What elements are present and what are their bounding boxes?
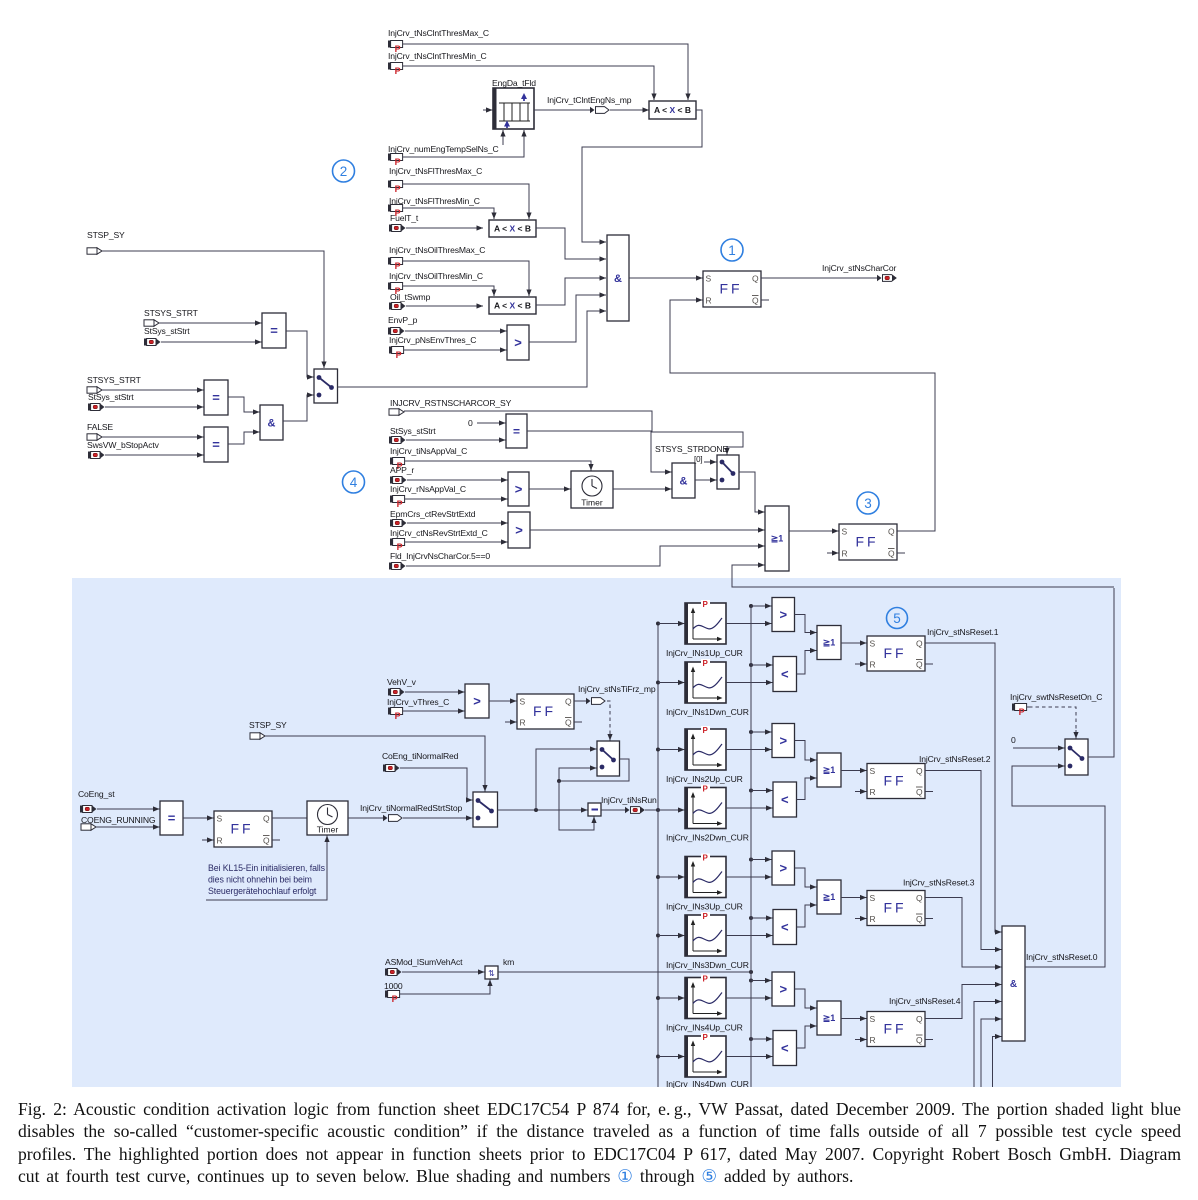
km converter glyph	[488, 969, 495, 978]
curve block InjCrv_INs1Up_CUR	[685, 600, 726, 644]
wire STSP_SY to switch U10 control	[102, 251, 327, 368]
svg-text:≧1: ≧1	[823, 892, 836, 902]
wire bus to InjCrv_INs2Up_CUR	[658, 747, 685, 752]
comparator U18 greater-than	[508, 512, 530, 548]
svg-text:&: &	[614, 273, 622, 285]
wire EngDa_tFld output to comparator U2	[534, 109, 590, 111]
flip-flop FF3	[839, 524, 897, 560]
svg-text:InjCrv_INs3Dwn_CUR: InjCrv_INs3Dwn_CUR	[666, 960, 749, 970]
svg-text:InjCrv_stNsTiFrz_mp: InjCrv_stNsTiFrz_mp	[578, 684, 656, 694]
blue shaded region (customer-specific acoustic condition disable logic)	[72, 578, 1121, 1087]
svg-text:EngDa_tFld: EngDa_tFld	[492, 78, 536, 88]
flip-flop FF8 stNsReset.4	[867, 1012, 925, 1047]
wire loop to subtract U25 bottom	[559, 781, 597, 830]
svg-text:P: P	[395, 711, 401, 721]
svg-text:S: S	[870, 893, 876, 903]
wire VehV_v to comparator U20	[405, 689, 465, 694]
svg-text:=: =	[270, 323, 278, 338]
label Fld_InjCrvNsCharCor.5==0	[390, 551, 490, 561]
svg-text:InjCrv_INs4Dwn_CUR: InjCrv_INs4Dwn_CUR	[666, 1079, 749, 1088]
svg-text:P: P	[395, 261, 401, 271]
wire InjCrv_INs2Dwn_CUR output to comparator	[726, 805, 773, 810]
OR gate row 4	[817, 1001, 841, 1035]
comparator gt2 greater-than	[772, 724, 795, 758]
label [0]	[694, 455, 702, 464]
wire InjCrv_INs3Up_CUR output to comparator	[726, 874, 772, 879]
svg-text:InjCrv_stNsReset.1: InjCrv_stNsReset.1	[927, 627, 999, 637]
svg-text:1000: 1000	[384, 981, 403, 991]
wire pNsEnvThres to comparator U6	[406, 347, 507, 352]
svg-text:P: P	[395, 184, 401, 194]
wire ctNsRevStrtExtd to comparator U18	[407, 539, 508, 544]
equality U8	[204, 380, 228, 415]
param InjCrv_tNsClntThresMax_C	[388, 41, 405, 54]
wire FF1 Qbar stub	[761, 299, 769, 301]
OR gate row 1	[817, 626, 841, 660]
wire AND U5 output to FF1 S	[629, 275, 703, 280]
circled number 5	[887, 608, 908, 629]
label COENG_RUNNING	[81, 815, 156, 825]
svg-text:FF: FF	[855, 534, 878, 550]
port STSYS_STRT second	[87, 387, 102, 393]
wire FF4 Q to mp port	[574, 700, 583, 702]
wire gt3 to OR	[795, 868, 817, 890]
svg-text:Q: Q	[916, 660, 923, 670]
wire STSYS_STRT to equality U7	[159, 320, 262, 325]
junction km bus upper row 1	[749, 604, 753, 608]
wire AND U30 input 3 horizontal	[962, 964, 1002, 969]
label STSYS_STRDONE	[655, 444, 728, 454]
label InjCrv_tNsOilThresMax_C	[389, 245, 485, 255]
param InjCrv_tNsClntThresMin_C	[388, 63, 405, 76]
wire FF6 Q to AND U30	[925, 771, 1002, 953]
svg-text:≧1: ≧1	[823, 1013, 836, 1023]
label InjCrv_tClntEngNs_mp	[547, 95, 632, 105]
svg-text:0: 0	[1011, 735, 1016, 745]
circled number 2	[333, 160, 355, 182]
wire COENG_RUNNING to equality U23	[96, 824, 160, 829]
label FuelT_t	[390, 213, 419, 223]
svg-text:Q: Q	[263, 814, 270, 824]
svg-text:P: P	[703, 975, 709, 984]
svg-text:A < X < B: A < X < B	[494, 224, 531, 234]
wire STSP_SY to switch U22 control	[265, 736, 488, 792]
wire U6 output to AND U5 input 4	[529, 292, 606, 342]
wire tiNsRun to curve bus	[645, 809, 658, 811]
param InjCrv_tNsFlThresMin_C	[388, 205, 405, 218]
label INJCRV_RSTNSCHARCOR_SY	[390, 398, 512, 408]
equality U12	[506, 414, 527, 448]
label InjCrv_tiNormalRedStrtStop	[360, 803, 462, 813]
timer U15	[571, 471, 613, 508]
svg-text:FF: FF	[883, 1021, 906, 1037]
svg-text:5: 5	[893, 611, 901, 626]
circled number 4	[343, 471, 365, 493]
vis port InjCrv_tiNormalRedStrtStop	[380, 815, 402, 822]
svg-text:Q: Q	[752, 296, 759, 306]
svg-text:VehV_v: VehV_v	[387, 677, 417, 687]
svg-text:⇅: ⇅	[488, 969, 495, 978]
wire U18 output to OR U17 input 2	[530, 527, 765, 532]
svg-text:InjCrv_tClntEngNs_mp: InjCrv_tClntEngNs_mp	[547, 95, 632, 105]
wire U23 output to FF2 S	[183, 815, 214, 820]
wire InjCrv_INs1Dwn_CUR output to comparator	[726, 680, 773, 685]
wire FF8 Qbar stub	[925, 1039, 933, 1041]
label InjCrv_tNsClntThresMax_C	[388, 28, 489, 38]
label km	[503, 957, 514, 967]
label StSys_stStrt second	[88, 392, 134, 402]
svg-text:P: P	[397, 499, 403, 509]
label constant 0 second	[1011, 735, 1016, 745]
svg-text:InjCrv_INs2Dwn_CUR: InjCrv_INs2Dwn_CUR	[666, 833, 749, 843]
svg-text:>: >	[515, 482, 523, 497]
flip-flop FF6 stNsReset.2	[867, 764, 925, 799]
svg-text:InjCrv_INs4Up_CUR: InjCrv_INs4Up_CUR	[666, 1023, 743, 1033]
switch U31 reset-on	[1065, 739, 1088, 775]
wire tNsFlThresMin to A<X<B U3 input A	[405, 208, 497, 219]
junction km bus	[749, 970, 753, 974]
wire FF8 R stub	[855, 1037, 867, 1042]
svg-text:InjCrv_stNsReset.0: InjCrv_stNsReset.0	[1026, 952, 1098, 962]
label InjCrv_INs3Up_CUR	[666, 902, 743, 912]
label StSys_stStrt first	[144, 326, 190, 336]
wire OR to FF7 S	[841, 895, 867, 900]
wire km bus to comparator lt1	[751, 662, 773, 667]
wire tiNormalRedStrtStop to switch U22 input 2	[403, 815, 473, 820]
wire FF7 Qbar stub	[925, 918, 933, 920]
svg-text:Q: Q	[888, 549, 895, 559]
svg-text:P: P	[703, 726, 709, 735]
label InjCrv_stNsReset.3	[903, 878, 975, 888]
label InjCrv_stNsReset.4	[889, 996, 961, 1006]
svg-text:InjCrv_tiNsAppVal_C: InjCrv_tiNsAppVal_C	[390, 446, 467, 456]
svg-text:SwsVW_bStopActv: SwsVW_bStopActv	[87, 440, 160, 450]
svg-text:P: P	[395, 66, 401, 76]
svg-text:Q: Q	[916, 1014, 923, 1024]
wire bus to InjCrv_INs3Up_CUR	[658, 874, 685, 879]
comparator gt4 greater-than	[772, 972, 795, 1006]
wire AND U13 output to switch U14 input 2	[695, 477, 717, 482]
comparator lt3 less-than	[773, 910, 797, 945]
wire 1000 to km converter bottom	[402, 980, 493, 995]
wire tNsClntThresMax to A<X<B U2 input B	[405, 44, 691, 100]
svg-text:InjCrv_swtNsResetOn_C: InjCrv_swtNsResetOn_C	[1010, 692, 1102, 702]
circled number 1	[721, 239, 743, 261]
svg-text:S: S	[870, 1014, 876, 1024]
label InjCrv_rNsAppVal_C	[390, 484, 466, 494]
param InjCrv_numEngTempSelNs_C	[388, 154, 405, 167]
svg-text:S: S	[520, 697, 526, 707]
svg-text:InjCrv_stNsCharCor: InjCrv_stNsCharCor	[822, 263, 896, 273]
wire AND U30 input 7 from below	[993, 1034, 1002, 1087]
OR gate row 2	[817, 753, 841, 787]
svg-text:P: P	[1019, 707, 1025, 717]
svg-text:InjCrv_INs1Up_CUR: InjCrv_INs1Up_CUR	[666, 648, 743, 658]
svg-text:S: S	[706, 274, 712, 284]
svg-text:R: R	[706, 296, 712, 306]
wire EpmCrs to comparator U18	[407, 520, 508, 525]
wire km bus to comparator gt2	[751, 729, 772, 734]
curve block InjCrv_INs3Dwn_CUR	[685, 912, 726, 956]
wire FF5 Q to AND U30	[925, 643, 1002, 935]
svg-text:Q: Q	[916, 787, 923, 797]
junction km bus lower row 2	[749, 789, 753, 793]
bus vertical km distance	[750, 606, 752, 1087]
comparator gt1 greater-than	[772, 598, 795, 632]
svg-text:Q: Q	[565, 718, 572, 728]
svg-text:A < X < B: A < X < B	[654, 105, 691, 115]
wire FF4 Qbar stub	[574, 721, 582, 723]
svg-text:STSYS_STRT: STSYS_STRT	[144, 308, 199, 318]
junction bus to InjCrv_INs2Up_CUR	[656, 748, 660, 752]
svg-text:InjCrv_INs3Up_CUR: InjCrv_INs3Up_CUR	[666, 902, 743, 912]
input port VehV_v	[388, 689, 405, 696]
svg-text:P: P	[703, 1033, 709, 1042]
wire StSys_stStrt second to equality U8	[105, 404, 204, 409]
label FALSE	[87, 422, 113, 432]
label InjCrv_INs3Dwn_CUR	[666, 960, 749, 970]
wire RSTNSCHARCOR to switch U14 control	[404, 411, 743, 455]
wire CoEng_tiNormalRed to switch U22 input 1	[400, 768, 473, 803]
input port EpmCrs_ctRevStrtExtd	[390, 520, 407, 527]
wire vThres to comparator U20	[405, 708, 465, 713]
output port InjCrv_stNsCharCor	[874, 275, 897, 282]
svg-text:INJCRV_RSTNSCHARCOR_SY: INJCRV_RSTNSCHARCOR_SY	[390, 398, 512, 408]
subtract U25 minus sign	[592, 809, 599, 811]
svg-text:2: 2	[340, 164, 348, 179]
wire mp port to A<X<B U2 X input	[610, 107, 649, 112]
svg-text:=: =	[212, 437, 220, 452]
junction bus to InjCrv_INs4Dwn_CUR	[656, 1055, 660, 1059]
wire OR to FF6 S	[841, 768, 867, 773]
label InjCrv_INs2Up_CUR	[666, 774, 743, 784]
wire U7 output to switch U10 input 1	[286, 331, 314, 380]
wire bus to InjCrv_INs3Dwn_CUR	[658, 933, 685, 938]
svg-text:>: >	[514, 335, 522, 350]
wire tNsOilThresMax to A<X<B U4 input B	[405, 261, 532, 296]
svg-text:Q: Q	[916, 766, 923, 776]
label InjCrv_numEngTempSelNs_C	[388, 144, 499, 154]
svg-text:S: S	[870, 766, 876, 776]
wire stub into EngDa_tFld input	[483, 107, 493, 112]
svg-text:Oil_tSwmp: Oil_tSwmp	[390, 292, 431, 302]
circled number 3	[857, 492, 879, 514]
svg-text:FF: FF	[533, 703, 556, 719]
svg-text:P: P	[392, 994, 398, 1004]
param InjCrv_tNsFlThresMax_C	[388, 181, 405, 194]
svg-text:InjCrv_INs1Dwn_CUR: InjCrv_INs1Dwn_CUR	[666, 707, 749, 717]
param InjCrv_swtNsResetOn_C	[1012, 704, 1029, 717]
junction bus to InjCrv_INs3Up_CUR	[656, 875, 660, 879]
svg-text:P: P	[396, 350, 402, 360]
svg-text:=: =	[212, 390, 220, 405]
svg-text:STSYS_STRT: STSYS_STRT	[87, 375, 142, 385]
input port APP_r	[390, 477, 407, 484]
label InjCrv_tNsOilThresMin_C	[389, 271, 483, 281]
svg-text:InjCrv_stNsReset.2: InjCrv_stNsReset.2	[919, 754, 991, 764]
wire OR U17 output to FF3 S	[789, 528, 839, 533]
junction km bus lower row 1	[749, 663, 753, 667]
svg-text:FF: FF	[719, 281, 742, 297]
flip-flop FF1 stNsCharCor	[703, 271, 761, 307]
svg-text:Fld_InjCrvNsCharCor.5==0: Fld_InjCrvNsCharCor.5==0	[390, 551, 490, 561]
wire swtNsResetOn arrow	[1073, 730, 1078, 739]
svg-text:InjCrv_tNsOilThresMax_C: InjCrv_tNsOilThresMax_C	[389, 245, 485, 255]
comparator gt3 greater-than	[772, 851, 795, 885]
param InjCrv_rNsAppVal_C	[390, 496, 407, 509]
junction bus to InjCrv_INs1Up_CUR	[656, 622, 660, 626]
svg-text:Timer: Timer	[317, 825, 339, 835]
svg-text:3: 3	[864, 496, 872, 511]
svg-text:S: S	[870, 639, 876, 649]
label InjCrv_swtNsResetOn_C	[1010, 692, 1102, 702]
wire FuelT_t to A<X<B U3	[406, 225, 483, 230]
wire stNsTiFrz dashed to switch U21 control	[607, 701, 610, 734]
vis port InjCrv_stNsTiFrz_mp	[583, 698, 605, 705]
svg-text:FALSE: FALSE	[87, 422, 113, 432]
wire tNsFlThresMax to A<X<B U3 input B	[405, 184, 532, 219]
wire U9 output to AND U11	[228, 429, 260, 444]
port FALSE	[87, 434, 102, 440]
svg-text:STSP_SY: STSP_SY	[87, 230, 125, 240]
wire ASMod to km converter	[402, 969, 485, 974]
wire 0 to equality U12	[477, 420, 506, 425]
comparator U3 A<X<B fuel	[489, 220, 536, 237]
flip-flop FF5 stNsReset.1	[867, 636, 925, 671]
svg-text:≧1: ≧1	[823, 638, 836, 648]
wire FF7 Q to AND U30	[925, 898, 1002, 970]
svg-text:<: <	[781, 920, 789, 935]
svg-text:FF: FF	[883, 773, 906, 789]
svg-text:>: >	[779, 733, 787, 748]
wire Timer U24 output to mp port	[348, 817, 380, 819]
wire FF1 Q to output port	[761, 277, 874, 279]
svg-text:Q: Q	[888, 527, 895, 537]
comparator U20 greater-than	[465, 684, 489, 718]
label STSP_SY second	[249, 720, 287, 730]
label EpmCrs_ctRevStrtExtd	[390, 509, 476, 519]
input port Oil_tSwmp	[389, 303, 406, 310]
param InjCrv_pNsEnvThres_C	[389, 347, 406, 360]
wire gt4 to OR	[795, 989, 817, 1011]
svg-text:R: R	[217, 836, 223, 846]
svg-text:Q: Q	[916, 639, 923, 649]
svg-text:Q: Q	[752, 274, 759, 284]
comparator U4 A<X<B oil	[489, 297, 536, 314]
equality U23	[160, 801, 183, 835]
param 1000	[385, 991, 402, 1004]
svg-text:S: S	[842, 527, 848, 537]
port STSP_SY second	[250, 733, 265, 739]
param InjCrv_tiNsAppVal_C	[390, 458, 407, 471]
junction bus to InjCrv_INs3Dwn_CUR	[656, 934, 660, 938]
svg-text:InjCrv_tNsClntThresMax_C: InjCrv_tNsClntThresMax_C	[388, 28, 489, 38]
OR gate row 3	[817, 880, 841, 914]
switch U14 STSYS_STRDONE	[717, 455, 739, 489]
svg-text:InjCrv_tNsFlThresMax_C: InjCrv_tNsFlThresMax_C	[389, 166, 482, 176]
svg-text:P: P	[703, 912, 709, 921]
svg-text:R: R	[520, 718, 526, 728]
label InjCrv_stNsReset.1	[927, 627, 999, 637]
label Oil_tSwmp	[390, 292, 431, 302]
junction km bus lower row 4	[749, 1037, 753, 1041]
svg-text:Q: Q	[916, 893, 923, 903]
param InjCrv_vThres_C	[388, 708, 405, 721]
label InjCrv_tiNsRun	[601, 795, 657, 805]
label InjCrv_INs4Up_CUR	[666, 1023, 743, 1033]
wire tiNsAppVal to Timer U15 control	[407, 461, 594, 471]
label constant 0	[468, 418, 473, 428]
wire branch to switch U21 input 1	[536, 746, 597, 810]
flip-flop FF4 vehicle-speed	[517, 694, 574, 729]
AND U13	[672, 463, 695, 498]
wire gt2 to OR	[795, 741, 817, 763]
svg-text:<: <	[781, 1041, 789, 1056]
svg-text:P: P	[703, 600, 709, 609]
svg-text:R: R	[870, 1035, 876, 1045]
label CoEng_st	[78, 789, 115, 799]
svg-text:STSP_SY: STSP_SY	[249, 720, 287, 730]
label STSYS_STRT second	[87, 375, 142, 385]
svg-text:InjCrv_tiNormalRedStrtStop: InjCrv_tiNormalRedStrtStop	[360, 803, 462, 813]
OR U17	[765, 506, 789, 571]
wire bus to InjCrv_INs1Up_CUR	[658, 621, 685, 626]
svg-text:InjCrv_vThres_C: InjCrv_vThres_C	[387, 697, 449, 707]
wire U12 output to AND U13	[527, 431, 672, 475]
svg-text:km: km	[503, 957, 514, 967]
label InjCrv_tiNsAppVal_C	[390, 446, 467, 456]
junction bus to InjCrv_INs4Up_CUR	[656, 996, 660, 1000]
unit converter km	[485, 966, 498, 979]
svg-text:InjCrv_stNsReset.4: InjCrv_stNsReset.4	[889, 996, 961, 1006]
label VehV_v	[387, 677, 417, 687]
junction switch U21 loop	[557, 779, 561, 783]
svg-text:=: =	[168, 811, 176, 826]
wire A<X<B U4 output to AND U5 input 3	[536, 275, 606, 305]
wire FF8 Q to AND U30	[925, 982, 1002, 1019]
wire FF4 R stub	[505, 719, 517, 724]
svg-text:Q: Q	[263, 836, 270, 846]
svg-text:CoEng_st: CoEng_st	[78, 789, 115, 799]
label StSys_stStrt third	[390, 426, 436, 436]
timer U24	[307, 801, 348, 835]
svg-text:=: =	[513, 424, 520, 438]
svg-text:R: R	[870, 787, 876, 797]
wire FF6 R stub	[855, 789, 867, 794]
wire switch U22 output main run line	[498, 807, 588, 812]
subtract U25	[588, 803, 601, 816]
wire lt1 to OR	[797, 648, 817, 674]
wire AND U30 input 5 from below	[974, 999, 1002, 1087]
svg-text:>: >	[473, 694, 481, 709]
svg-text:FuelT_t: FuelT_t	[390, 213, 419, 223]
svg-text:P: P	[703, 854, 709, 863]
label InjCrv_INs1Dwn_CUR	[666, 707, 749, 717]
svg-text:InjCrv_rNsAppVal_C: InjCrv_rNsAppVal_C	[390, 484, 466, 494]
input port StSys_stStrt third	[389, 437, 406, 444]
svg-text:Bei KL15-Ein initialisieren, f: Bei KL15-Ein initialisieren, fallsdies n…	[208, 863, 326, 896]
svg-text:&: &	[268, 417, 276, 429]
wire switch U21 output loop	[559, 759, 629, 781]
wire U11 output to switch U10 input 2	[283, 392, 314, 421]
wire InjCrv_INs3Dwn_CUR output to comparator	[726, 933, 773, 938]
input port StSys_stStrt first	[144, 339, 161, 346]
label InjCrv_tNsFlThresMax_C	[389, 166, 482, 176]
label InjCrv_stNsReset.0	[1026, 952, 1098, 962]
wire km bus to comparator lt2	[751, 788, 773, 793]
wire 0 to switch U31 input 1	[1013, 745, 1065, 750]
svg-text:P: P	[703, 785, 709, 794]
